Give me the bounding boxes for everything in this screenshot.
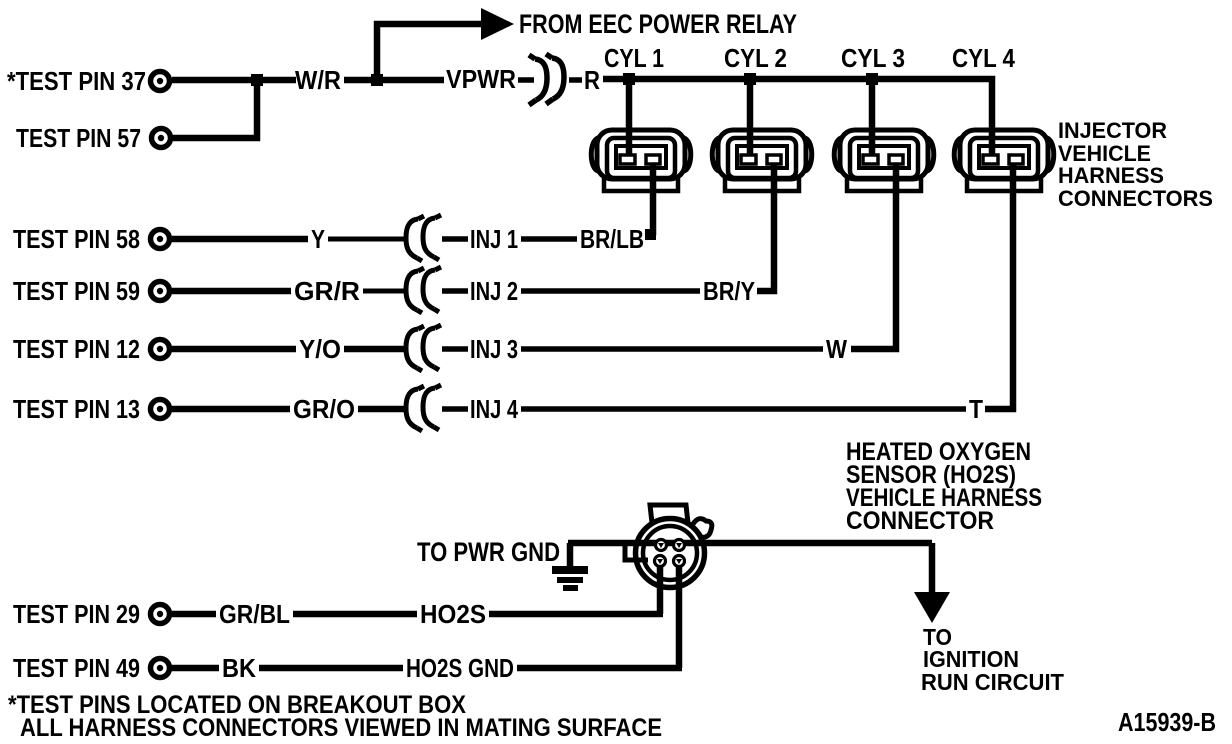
- svg-text:TEST PIN 29: TEST PIN 29: [13, 599, 140, 629]
- svg-text:W/R: W/R: [295, 65, 341, 95]
- svg-text:*TEST PIN 37: *TEST PIN 37: [7, 66, 146, 96]
- wire: injector 4 output down to INJ 4 row: [985, 163, 1013, 409]
- svg-text:W: W: [826, 334, 847, 364]
- wire: break to INJ 1: [442, 236, 468, 242]
- HO2S connector pins: [655, 540, 685, 567]
- svg-text:R: R: [584, 65, 600, 95]
- wire: test pin 57 up to pin 37 wire: [173, 80, 257, 138]
- svg-text:INJ 4: INJ 4: [470, 394, 518, 424]
- label HEATED OXYGEN SENSOR (HO2S) VEHICLE HARNESS CONNECTOR: [846, 438, 1042, 535]
- svg-text:TEST PIN 59: TEST PIN 59: [13, 276, 140, 306]
- test pin 37 terminal: [151, 72, 170, 91]
- svg-text:BR/Y: BR/Y: [703, 276, 755, 306]
- svg-text:TEST PIN 13: TEST PIN 13: [13, 394, 140, 424]
- wire: INJ 4 to T: [521, 406, 966, 412]
- junction node CYL 1: [623, 73, 635, 85]
- svg-text:CYL 2: CYL 2: [724, 43, 787, 73]
- wire: injector 3 output down to INJ 3 row: [851, 163, 896, 349]
- svg-text:INJECTOR: INJECTOR: [1058, 118, 1167, 143]
- junction node at pin 57 tap: [251, 74, 263, 86]
- svg-text:GR/O: GR/O: [293, 394, 355, 424]
- injector vehicle harness connector CYL 2: [712, 130, 812, 191]
- wire: HO2S pin down to test pin 29 row: [657, 561, 664, 614]
- wire: test pin 37 to junction: [172, 77, 296, 84]
- injector vehicle harness connector CYL 1: [591, 130, 691, 191]
- injector vehicle harness connector CYL 3: [834, 130, 934, 191]
- wire: CYL 1 drop to injector connector 1: [626, 79, 633, 158]
- wire: HO2S GND label to connector: [517, 665, 682, 672]
- heated oxygen sensor vehicle harness connector: [625, 505, 712, 588]
- wire: INJ 2 to BR/Y: [521, 288, 700, 294]
- svg-text:BR/LB: BR/LB: [580, 224, 644, 254]
- wire: pin 58 to Y: [172, 236, 308, 243]
- svg-text:ALL HARNESS CONNECTORS VIEWED: ALL HARNESS CONNECTORS VIEWED IN MATING …: [20, 714, 662, 742]
- svg-text:TEST PIN 12: TEST PIN 12: [13, 334, 140, 364]
- test pin 12 terminal: [151, 340, 170, 359]
- svg-text:CYL 3: CYL 3: [841, 43, 905, 73]
- wire: injector 2 output down to INJ 2 row: [757, 163, 774, 291]
- test pin 29 terminal: [151, 605, 170, 624]
- svg-text:FROM EEC POWER RELAY: FROM EEC POWER RELAY: [519, 9, 797, 39]
- wire: Y to break row 1: [328, 237, 406, 242]
- test pin 13 terminal: [151, 400, 170, 419]
- svg-text:HARNESS: HARNESS: [1058, 163, 1164, 188]
- wire: pin 13 to GR/O: [172, 406, 290, 413]
- wire: pin 12 to Y/O: [172, 346, 296, 353]
- wire: power ground to HO2S connector and to ignition run circuit: [568, 540, 932, 547]
- wire: Y/O to break row 3: [344, 346, 406, 353]
- test pin 59 terminal: [151, 282, 170, 301]
- ground: [552, 543, 588, 591]
- wire: INJ 3 to W: [521, 346, 823, 352]
- wire: power bus across cylinders: [603, 79, 992, 158]
- wire: branch up to FROM EEC POWER RELAY arrow: [377, 24, 483, 80]
- wire: pin 49 to BK: [172, 665, 219, 672]
- label INJECTOR VEHICLE HARNESS CONNECTORS: [1058, 118, 1213, 211]
- svg-text:TEST PIN 49: TEST PIN 49: [13, 653, 140, 683]
- svg-text:HO2S: HO2S: [420, 599, 486, 629]
- wire: pin 29 to GR/BL: [172, 611, 216, 618]
- wire: VPWR to connector break: [518, 77, 534, 83]
- svg-text:CONNECTORS: CONNECTORS: [1058, 186, 1213, 211]
- svg-text:GR/BL: GR/BL: [219, 599, 290, 629]
- svg-text:GR/R: GR/R: [294, 276, 360, 306]
- svg-text:TEST PIN 57: TEST PIN 57: [16, 123, 141, 153]
- wire: pin 59 to GR/R: [172, 288, 291, 295]
- svg-text:INJ 2: INJ 2: [470, 276, 518, 306]
- wire: CYL 2 drop to injector connector 2: [747, 79, 754, 158]
- test pin 57 terminal: [152, 129, 171, 148]
- wire: GR/R to break row 2: [363, 289, 406, 294]
- svg-text:A15939-B: A15939-B: [1118, 707, 1216, 737]
- wire: down to ignition run circuit arrow: [929, 543, 936, 594]
- junction node CYL 3: [866, 73, 878, 85]
- arrowhead FROM EEC POWER RELAY: [481, 8, 514, 40]
- wire: injector 1 output down to INJ 1 row: [646, 163, 653, 236]
- node at BR/LB corner: [645, 229, 656, 240]
- test pin 58 terminal: [151, 230, 170, 249]
- wire: break to R: [569, 77, 582, 83]
- wire: GR/BL to HO2S: [293, 611, 417, 618]
- wire: HO2S label to connector: [489, 611, 663, 618]
- junction node CYL 2: [744, 73, 756, 85]
- wire: break to INJ 4: [442, 406, 468, 412]
- svg-text:VPWR: VPWR: [446, 64, 516, 94]
- test pin 49 terminal: [151, 659, 170, 678]
- svg-text:HO2S GND: HO2S GND: [406, 653, 514, 683]
- inline connector break symbol )): [529, 54, 564, 105]
- wire: INJ 1 to BR/LB: [521, 236, 577, 242]
- wire: HO2S GND pin down to test pin 49 row: [676, 561, 683, 668]
- wire: CYL 3 drop to injector connector 3: [869, 79, 876, 158]
- harness break row 1: [406, 215, 441, 261]
- junction node to EEC power relay branch: [371, 74, 383, 86]
- wire: break to INJ 2: [442, 288, 468, 294]
- svg-text:Y: Y: [311, 224, 325, 254]
- svg-text:CONNECTOR: CONNECTOR: [846, 507, 994, 535]
- wire: BK to HO2S GND: [259, 665, 403, 672]
- svg-text:CYL 1: CYL 1: [604, 43, 664, 73]
- harness break row 2: [406, 267, 441, 313]
- label TO IGNITION RUN CIRCUIT: [921, 624, 1064, 695]
- svg-text:Y/O: Y/O: [299, 334, 341, 364]
- svg-text:TEST PIN 58: TEST PIN 58: [13, 224, 140, 254]
- harness break row 3: [406, 325, 441, 371]
- wire: GR/O to break row 4: [358, 406, 406, 413]
- arrowhead to ignition run circuit: [914, 592, 950, 623]
- wire: W/R to VPWR: [344, 77, 444, 84]
- svg-text:INJ 1: INJ 1: [470, 224, 518, 254]
- svg-text:INJ 3: INJ 3: [470, 334, 518, 364]
- svg-text:BK: BK: [222, 653, 256, 683]
- wire: break to INJ 3: [442, 346, 468, 352]
- svg-text:RUN CIRCUIT: RUN CIRCUIT: [921, 669, 1064, 695]
- injector vehicle harness connector CYL 4: [954, 130, 1054, 191]
- harness break row 4: [406, 385, 441, 431]
- svg-text:CYL 4: CYL 4: [952, 43, 1015, 73]
- svg-text:T: T: [969, 394, 983, 424]
- svg-text:TO PWR GND: TO PWR GND: [417, 537, 560, 567]
